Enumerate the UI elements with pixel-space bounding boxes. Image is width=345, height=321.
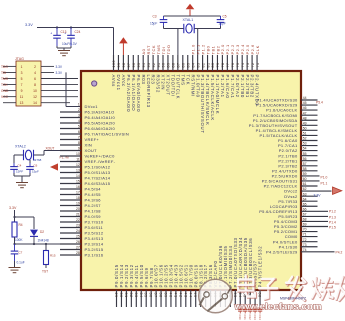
svg-text:3.3V: 3.3V [314,194,322,198]
svg-text:25: 25 [76,235,80,239]
svg-text:97: 97 [127,63,131,68]
svg-text:P2.1/TB0: P2.1/TB0 [240,75,245,99]
pin 45 bottom (P8.0/S19) [193,264,198,307]
svg-text:P1.3/TBOUTH/SVSOUT: P1.3/TBOUTH/SVSOUT [200,75,205,134]
svg-text:28: 28 [76,251,80,255]
svg-text:P4.7/S2/A14: P4.7/S2/A14 [85,176,111,181]
pin 46 bottom (P8.1/S18) [198,264,203,307]
pin 21 left (P4.0/S9) [60,213,101,219]
pin 81 top (P1.4/TBCLK/SMCLK) [205,45,210,125]
svg-text:26: 26 [76,240,80,244]
svg-text:92: 92 [152,63,156,68]
svg-text:58: 58 [303,167,307,171]
svg-text:6: 6 [34,77,36,81]
capacitor C4 (xtal2 left) [13,163,15,167]
svg-text:53: 53 [303,142,307,146]
svg-text:P9.4/S11: P9.4/S11 [134,265,139,288]
svg-text:C4: C4 [18,164,22,168]
capacitor C7 [14,244,16,251]
svg-text:P1.6/CA0: P1.6/CA0 [225,75,230,99]
pin 52 bottom (P7.2/SIMO0/S34) [228,245,233,307]
svg-text:P1.4/TBCLK/SMCLK: P1.4/TBCLK/SMCLK [256,128,298,133]
svg-text:P1.7/CA1: P1.7/CA1 [278,143,298,148]
svg-text:36: 36 [149,293,153,298]
pin 75 top (P2.0/TA2) [235,44,240,98]
svg-text:15PF: 15PF [16,170,23,174]
svg-text:48: 48 [303,116,307,120]
pin 16 left (P4.5/S4) [60,185,101,191]
svg-text:P2.6/CAOUT/S31: P2.6/CAOUT/S31 [262,179,298,184]
pin 66 right (P5.6/LCDREF/R13) [259,207,328,214]
svg-text:11: 11 [20,95,24,99]
svg-text:C34: C34 [258,315,262,321]
pin 13 left (P5.0/S1/A13) [60,169,111,175]
svg-text:P5.3/COM2: P5.3/COM2 [274,224,298,229]
svg-text:73: 73 [303,243,307,247]
junction [33,243,35,245]
svg-text:9: 9 [21,89,23,93]
svg-text:P1.3: P1.3 [329,216,336,220]
svg-text:P2.2: P2.2 [230,44,235,55]
svg-text:P2.1/TB0: P2.1/TB0 [278,153,298,158]
pin 91 top (R33/S2) [156,45,161,94]
svg-text:19: 19 [76,202,80,206]
pin 96 top (P6.1/A1/OA0O) [131,55,136,111]
wire R4 to node RST [14,237,16,244]
svg-text:95: 95 [137,63,141,68]
svg-text:R4: R4 [19,223,23,227]
svg-text:47: 47 [303,111,307,115]
svg-text:D2: D2 [40,230,44,234]
svg-text:3.3V: 3.3V [25,23,33,27]
svg-text:VeREF+/DAC0: VeREF+/DAC0 [85,154,116,159]
svg-text:TMS: TMS [1,77,9,81]
svg-text:35: 35 [144,293,148,298]
svg-text:P9.3/S12: P9.3/S12 [129,264,134,287]
pin 55 right (P2.1/TB0) [278,152,317,159]
pin 58 right (P2.4/UTXD0) [272,167,317,174]
svg-text:66: 66 [303,207,307,211]
svg-text:R23: R23 [151,75,156,85]
svg-text:P1.2: P1.2 [329,210,336,214]
svg-text:P1.7/UCB0CLK/SOMI: P1.7/UCB0CLK/SOMI [253,113,297,118]
svg-text:P5.7/R33: P5.7/R33 [278,199,298,204]
op IC U1 MSP430F449 body [81,71,301,290]
pin 48 right (P1.2/UCB0SIMO/SDA) [253,116,318,123]
capacitor C31 (bottom) [243,308,247,321]
svg-text:TST: TST [42,270,48,274]
svg-text:P2.4/UTXD0: P2.4/UTXD0 [272,168,298,173]
pin 3 left (P6.4/A4/OA1I0) [60,114,116,120]
svg-text:P2.0/TA2: P2.0/TA2 [279,148,298,153]
pin 7 left (VREF+) [60,136,99,142]
svg-text:43: 43 [183,293,187,298]
pin 12 left (P5.1/S0/A12) [60,163,111,169]
svg-text:P1.4/UCA0TXD/S30: P1.4/UCA0TXD/S30 [256,98,298,103]
watermark char you [336,280,345,286]
svg-text:R33/S2: R33/S2 [156,75,161,94]
junction [70,26,72,28]
watermark char zi [262,277,275,283]
watermark char dian [244,276,250,294]
pin 54 bottom (P7.1/UCA0RXD/S34) [238,237,243,308]
svg-text:XTAL2: XTAL2 [15,145,26,149]
pin 92 top (R23) [151,45,156,84]
pin 61 right (P2.7/ADC12CLK) [264,182,318,189]
svg-text:78: 78 [221,63,225,68]
svg-text:P4.6/S3/A15: P4.6/S3/A15 [85,181,111,186]
pin 47 right (P1.7/UCB0CLK/SOMI) [253,111,317,118]
svg-text:99: 99 [117,63,121,68]
wire caps to ground [56,46,58,48]
pin 50 bottom (P7.0/UCLK0/S36) [218,245,223,307]
svg-text:P5.2/COM1: P5.2/COM1 [274,229,298,234]
svg-text:P1.2: P1.2 [200,44,205,55]
pin 88 top (TDO/TDI) [171,55,176,97]
pin 69 right (P5.3/COM2) [274,223,328,230]
svg-text:P4.0/S9: P4.0/S9 [85,214,102,219]
svg-text:7: 7 [21,83,23,87]
svg-text:45: 45 [303,101,307,105]
capacitor C6 (xtal2 right) [29,163,31,167]
JTAG pin 11 [3,96,16,98]
svg-text:P8.0/S19: P8.0/S19 [193,264,198,287]
svg-text:2: 2 [78,108,80,112]
resistor R15 [44,251,49,265]
pin 72 top (P2.3/TB2) [250,44,255,98]
capacitor C32 (bottom) [248,308,252,321]
svg-text:P3.4/S13: P3.4/S13 [85,236,104,241]
svg-text:67: 67 [303,213,307,217]
svg-text:P10.2/S5: P10.2/S5 [164,264,169,287]
pin 59 right (P2.5/URXD0) [272,172,320,179]
svg-text:C33: C33 [253,315,257,321]
pin 41 bottom (P10.4/S3) [173,264,178,307]
ground (decoupling caps) [58,50,70,52]
wire crystal right to cap C6 [29,160,31,163]
svg-text:3: 3 [21,71,23,75]
svg-text:P4.0/STLE0: P4.0/STLE0 [273,239,298,244]
svg-text:21: 21 [76,213,80,217]
svg-text:P10.4/S3: P10.4/S3 [174,264,179,287]
pin 53 right (P1.7/CA1) [278,142,318,149]
svg-text:P4.4/S5: P4.4/S5 [85,192,102,197]
pin 36 bottom (P9.7/S8) [149,267,154,307]
svg-text:3.3V: 3.3V [56,65,63,69]
svg-text:45: 45 [193,293,197,298]
pin 45 right (P1.5/UCA0RXD/S29) [256,101,317,108]
pin 51 right (P1.5/TACLK/ACLK) [260,132,318,139]
pin 19 left (P4.2/S7) [60,202,101,208]
svg-text:88: 88 [172,63,176,68]
wire right cap to crystal [220,26,222,29]
svg-text:VCC: VCC [1,95,9,99]
pin 57 right (P2.3/TB2) [278,162,317,169]
pin 47 bottom (P8.2/S17) [203,264,208,307]
pin 32 bottom (P9.3/S12) [129,264,134,307]
pin 18 left (P4.3/S6) [60,196,101,202]
svg-text:P6.7/A7/DAC1/SVSIN: P6.7/A7/DAC1/SVSIN [85,132,130,137]
svg-text:P1.6/UCA0CLK: P1.6/UCA0CLK [266,108,297,113]
pin 93 top (LCDREF/R13) [146,45,151,108]
capacitor C5 [220,16,222,20]
svg-text:13: 13 [76,169,80,173]
JTAG pin 1 [3,65,16,67]
svg-text:XTAL1: XTAL1 [183,18,194,22]
svg-text:72: 72 [303,238,307,242]
pin 71 top (P2.4/UTXD0) [255,45,260,105]
connector JTAG J1 [16,61,41,106]
svg-text:P10.5/S2: P10.5/S2 [178,264,183,287]
capacitor C24 [70,28,72,36]
pin 76 top (P1.7/CA1) [230,44,235,99]
svg-text:RST: RST [146,45,151,55]
ground (XTAL2) [16,182,28,184]
pin 98 top (AVcc) [121,55,126,87]
pin 35 bottom (P9.6/S9) [144,267,149,307]
svg-text:DVcc1: DVcc1 [85,104,99,109]
svg-text:15pF: 15pF [219,22,226,26]
svg-text:P4.3/STLE1/S32: P4.3/STLE1/S32 [258,246,263,288]
svg-text:27: 27 [76,246,80,250]
pin 48 bottom (P8.3/S16) [208,264,213,307]
svg-text:LCDREF/R13: LCDREF/R13 [146,75,151,108]
junction [13,216,15,218]
svg-text:70: 70 [303,228,307,232]
svg-text:P1.0/TA0: P1.0/TA0 [195,75,200,98]
ground triangle (XTAL1) [189,10,191,17]
svg-text:P2.7/ADC12CLK: P2.7/ADC12CLK [264,184,298,189]
svg-text:58: 58 [258,293,262,298]
svg-text:P1.5: P1.5 [329,226,336,230]
svg-text:52: 52 [303,137,307,141]
svg-text:65: 65 [303,202,307,206]
svg-text:15pF: 15pF [32,170,39,174]
svg-text:P3.1/S16: P3.1/S16 [85,253,104,258]
wire 3.3V to R divider [14,210,16,222]
svg-text:24: 24 [76,229,80,233]
pin 15 left (P4.6/S3/A15) [60,180,111,186]
JTAG pin 8 [41,84,78,86]
svg-text:TCK: TCK [185,75,190,86]
pin 55 bottom (P7.2/UCB0SDA/S35) [243,237,248,307]
svg-text:41: 41 [173,293,177,298]
pin 25 left (P3.4/S13) [60,235,104,241]
pin 30 bottom (P9.1/S14) [119,264,124,307]
junction [13,243,15,245]
pin 86 top (TMS) [180,55,185,86]
pin 57 bottom (AVss2/S37) [253,260,258,307]
pin 29 bottom (P9.0/S15) [114,264,119,307]
pin 56 right (P2.2/TB1) [278,157,317,164]
pin 22 left (P3.7/S10) [60,218,104,224]
svg-text:CLK: CLK [255,45,260,54]
svg-text:P4.5/S4: P4.5/S4 [85,187,102,192]
svg-text:P1.1/TA0/MCLK: P1.1/TA0/MCLK [215,75,220,115]
svg-text:P2.5/URXD0: P2.5/URXD0 [272,174,298,179]
svg-text:P1.2/UCB0SIMO/SDA: P1.2/UCB0SIMO/SDA [253,118,298,123]
crystal Y2 32768 [14,154,23,156]
ground (reset) [9,267,21,269]
svg-text:87: 87 [177,63,181,68]
svg-text:9: 9 [78,147,80,151]
svg-text:P2.3/TB2: P2.3/TB2 [278,163,298,168]
svg-text:93: 93 [147,63,151,68]
pin 83 top (P1.0/TA0) [195,44,200,98]
svg-text:10: 10 [33,89,37,93]
pin 71 right (COM0) [285,233,318,240]
svg-text:6: 6 [78,130,80,134]
svg-text:P7.2/SIMO0/S34: P7.2/SIMO0/S34 [228,245,233,287]
svg-text:P4.2/STLE/S29: P4.2/STLE/S29 [266,249,298,254]
svg-text:P9.1/S14: P9.1/S14 [119,264,124,287]
resistor R4 [12,222,17,237]
svg-text:P6.0/A0/OA0I0: P6.0/A0/OA0I0 [136,75,141,113]
pin 2 left (P6.3/A3/OA1O) [60,108,115,114]
svg-text:VREF+: VREF+ [85,137,100,142]
pin 37 bottom (P10.0/S7) [154,264,159,307]
svg-text:50: 50 [303,126,307,130]
svg-text:DVcc2: DVcc2 [284,189,298,194]
svg-text:10uF/6.3V: 10uF/6.3V [62,42,78,46]
pin-1 marker dot [92,81,97,86]
svg-text:64: 64 [303,197,307,201]
svg-text:XT2IN: XT2IN [161,75,166,91]
svg-text:P1.0: P1.0 [321,176,328,180]
crystal Y1 (XTAL1) [183,24,185,33]
svg-text:TDO: TDO [1,65,8,69]
svg-text:RST/NMI: RST/NMI [190,75,195,98]
pin 1 left (DVcc1) [78,103,98,109]
svg-text:P2.2/TB1: P2.2/TB1 [245,75,250,99]
pin 85 top (TCK) [185,55,190,85]
svg-text:P5.4: P5.4 [316,101,323,105]
svg-text:TMS: TMS [156,45,161,55]
svg-text:44: 44 [188,293,192,298]
pin 42 bottom (P10.5/S2) [178,264,183,307]
svg-text:81: 81 [206,63,210,68]
svg-text:P1.6/CA0: P1.6/CA0 [278,138,298,143]
capacitor C34 (bottom) [258,308,262,321]
svg-text:P5.5/R23: P5.5/R23 [278,214,298,219]
svg-text:22: 22 [76,218,80,222]
svg-text:54: 54 [303,147,307,151]
pin 89 top (XT2OUT) [166,45,171,96]
svg-text:100K: 100K [15,238,23,242]
JTAG pin 3 [3,71,16,73]
wire XTAL1 top rail [164,15,221,17]
pin 84 top (RST/NMI) [190,44,195,97]
svg-text:R03: R03 [141,75,146,85]
svg-text:P1.3/TBOUTH/SVSOUT: P1.3/TBOUTH/SVSOUT [249,123,298,128]
svg-text:12: 12 [33,95,37,99]
svg-text:1: 1 [21,65,23,69]
svg-text:42: 42 [178,293,182,298]
svg-text:P4.2: P4.2 [336,251,343,255]
pin 44 right (P1.4/UCA0TXD/S30) [256,96,317,103]
svg-text:18: 18 [76,196,80,200]
svg-text:55: 55 [303,152,307,156]
svg-text:16: 16 [76,185,80,189]
svg-text:P3.6/S11: P3.6/S11 [85,225,104,230]
svg-text:100: 100 [112,60,116,68]
svg-text:32: 32 [129,293,133,298]
svg-text:C7: C7 [19,251,23,255]
pin 28 left (P3.1/S16) [60,251,104,257]
pin 73 right (P4.1/S30) [279,243,318,250]
svg-text:P2.3: P2.3 [235,44,240,55]
svg-text:P2.0/TA2: P2.0/TA2 [235,75,240,98]
pin 68 right (P5.4/COM3) [274,218,328,225]
svg-text:56: 56 [303,157,307,161]
svg-text:DVcc1: DVcc1 [116,75,121,91]
pin 9 left (XOUT) [60,147,97,153]
svg-text:P9.6/S9: P9.6/S9 [144,267,149,287]
svg-text:C13: C13 [61,30,67,34]
svg-text:P9.0/S15: P9.0/S15 [114,264,119,287]
junction [56,26,58,28]
svg-text:P10.3/S4: P10.3/S4 [169,264,174,287]
svg-text:P3.3/S14: P3.3/S14 [85,242,104,247]
pin 77 top (P1.6/CA0) [225,44,230,99]
svg-text:23: 23 [76,224,80,228]
svg-text:P10.1/S6: P10.1/S6 [159,264,164,287]
svg-text:79: 79 [216,63,220,68]
svg-text:40: 40 [168,293,172,298]
svg-text:TMS: TMS [180,75,185,86]
svg-text:XOUT: XOUT [85,148,98,153]
svg-text:10: 10 [76,152,80,156]
wire left cap to crystal [163,26,165,29]
svg-text:P6.2/A2/OA0I0: P6.2/A2/OA0I0 [126,75,131,113]
JTAG pin 10 [41,90,78,92]
svg-text:61: 61 [303,182,307,186]
svg-text:30: 30 [119,293,123,298]
svg-text:P1.2/TA1: P1.2/TA1 [220,75,225,98]
pin 40 bottom (P10.3/S4) [168,264,173,307]
power marker (red arrow) [50,163,58,170]
svg-text:2: 2 [34,65,36,69]
svg-text:69: 69 [303,223,307,227]
svg-text:85: 85 [186,63,190,68]
svg-text:P10.6/S1: P10.6/S1 [183,264,188,287]
svg-text:TCK: TCK [151,45,156,55]
svg-text:P5.6/LCDREF/R13: P5.6/LCDREF/R13 [259,209,298,214]
svg-text:29: 29 [114,293,118,298]
pin 82 top (P1.3/TBOUTH/SVSOUT) [200,44,205,134]
pin 99 top (DVcc1) [116,55,121,91]
svg-text:46: 46 [303,106,307,110]
svg-text:P1.5/TACLK/ACLK: P1.5/TACLK/ACLK [210,75,215,121]
pin 74 top (P2.1/TB0) [240,44,245,98]
pin 33 bottom (P9.4/S11) [134,265,139,307]
svg-text:51: 51 [303,132,307,136]
svg-text:XT2OUT: XT2OUT [166,75,171,96]
svg-text:57: 57 [303,162,307,166]
svg-text:P4.1/S30: P4.1/S30 [279,244,298,249]
svg-text:XIN: XIN [85,143,93,148]
pin 53 bottom (P7.0/UCA0TXD/S33) [233,237,238,307]
svg-text:DVss2: DVss2 [284,194,298,199]
pin 50 right (P1.4/TBCLK/SMCLK) [256,126,318,133]
wire C7 to ground [14,261,16,268]
svg-text:14: 14 [76,174,80,178]
svg-text:80: 80 [211,63,215,68]
wire JTAG to DVcc1 pin [65,72,67,106]
svg-text:60: 60 [303,177,307,181]
svg-text:31: 31 [124,293,128,298]
svg-text:P2.6: P2.6 [250,44,255,55]
